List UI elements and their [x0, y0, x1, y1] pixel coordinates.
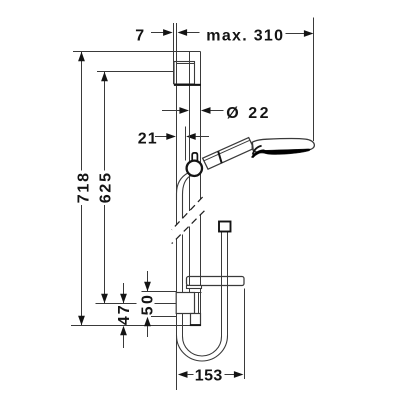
- svg-text:625: 625: [97, 171, 114, 203]
- svg-text:153: 153: [195, 368, 223, 385]
- svg-text:Ø 22: Ø 22: [226, 105, 271, 122]
- svg-text:max. 310: max. 310: [206, 28, 284, 45]
- svg-text:50: 50: [139, 293, 156, 316]
- svg-text:7: 7: [135, 28, 145, 45]
- svg-text:718: 718: [75, 171, 92, 203]
- svg-text:21: 21: [138, 130, 158, 147]
- svg-text:47: 47: [116, 303, 133, 325]
